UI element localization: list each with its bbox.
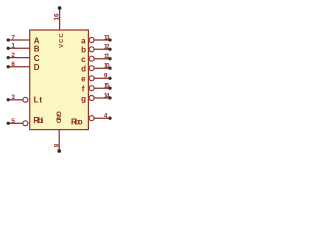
pin B wire (pin 1) <box>7 47 30 49</box>
pin end dot C <box>7 56 10 59</box>
inversion bubble b <box>89 47 94 52</box>
svg-text:9: 9 <box>104 73 108 80</box>
pin c wire (pin 11) <box>94 58 110 60</box>
svg-text:C: C <box>34 54 40 63</box>
pin A wire (pin 7) <box>7 8 111 151</box>
svg-text:8: 8 <box>53 143 60 147</box>
inversion bubble d <box>89 66 94 71</box>
svg-text:GND: GND <box>55 111 61 123</box>
pin end dot b <box>108 48 111 51</box>
svg-text:Lt: Lt <box>34 96 43 105</box>
svg-text:4: 4 <box>104 113 108 120</box>
svg-text:10: 10 <box>104 63 110 70</box>
svg-text:e: e <box>81 75 86 84</box>
svg-text:f: f <box>82 85 85 94</box>
svg-text:7: 7 <box>11 34 15 41</box>
IC body U1 (7447 BCD to 7-segment decoder) <box>30 30 89 130</box>
pin end dot GND <box>57 149 61 153</box>
svg-text:14: 14 <box>104 92 110 99</box>
pin end dot B <box>7 47 10 50</box>
pin end dot g <box>108 96 111 99</box>
svg-text:g: g <box>81 94 86 103</box>
svg-text:D: D <box>34 63 40 72</box>
unconnected pin end dot A <box>7 6 112 153</box>
svg-text:15: 15 <box>104 83 110 90</box>
pin number 7 <box>11 13 110 147</box>
pin end dot f <box>108 87 111 90</box>
pin f wire (pin 15) <box>94 87 110 89</box>
svg-text:Rbi: Rbi <box>33 116 43 125</box>
pin end dot a <box>108 38 111 41</box>
pin GND wire (pin 8) <box>58 130 60 151</box>
pin e wire (pin 9) <box>94 77 110 79</box>
svg-text:b: b <box>81 46 86 55</box>
pin Lt wire (pin 3) <box>7 99 23 101</box>
pin VCC wire (pin 16) <box>59 8 61 30</box>
svg-text:Rbo: Rbo <box>71 117 83 126</box>
svg-text:VCC: VCC <box>59 34 65 48</box>
svg-text:2: 2 <box>11 52 15 59</box>
svg-text:a: a <box>81 36 86 45</box>
pin Rbo wire (pin 4) <box>94 117 110 119</box>
pin end dot e <box>108 77 111 80</box>
pin d wire (pin 10) <box>94 67 110 69</box>
pin end dot Rbo <box>108 117 111 120</box>
pin end dot D <box>7 65 10 68</box>
pin end dot d <box>108 67 111 70</box>
pin end dot Rbi <box>7 122 10 125</box>
inversion bubble Lt <box>23 38 94 126</box>
svg-text:1: 1 <box>11 43 15 50</box>
svg-text:c: c <box>81 55 86 64</box>
pin name A <box>33 36 86 126</box>
pin b wire (pin 12) <box>94 48 110 50</box>
inversion bubble c <box>89 56 94 61</box>
inversion bubble Rbo <box>89 116 94 121</box>
pin D wire (pin 6) <box>7 66 30 68</box>
svg-text:16: 16 <box>54 13 61 20</box>
svg-text:3: 3 <box>11 94 15 101</box>
pin C wire (pin 2) <box>7 57 30 59</box>
pin name VCC (vertical) <box>55 34 66 124</box>
pin a wire (pin 13) <box>94 39 110 41</box>
pin Rbi wire (pin 5) <box>7 122 23 124</box>
pin end dot Lt <box>7 98 10 101</box>
svg-text:6: 6 <box>11 61 15 68</box>
inversion bubble g <box>89 96 94 101</box>
inversion bubble a <box>89 38 94 43</box>
svg-text:12: 12 <box>104 44 110 51</box>
svg-text:13: 13 <box>104 34 110 41</box>
svg-text:B: B <box>34 45 40 54</box>
svg-text:5: 5 <box>11 118 15 125</box>
inversion bubble f <box>89 86 94 91</box>
pin end dot c <box>108 57 111 60</box>
pin end dot VCC <box>58 6 62 10</box>
pin g wire (pin 14) <box>94 97 110 99</box>
svg-text:d: d <box>81 65 86 74</box>
svg-text:11: 11 <box>104 53 110 60</box>
inversion bubble e <box>89 76 94 81</box>
inversion bubble Rbi <box>23 121 28 126</box>
